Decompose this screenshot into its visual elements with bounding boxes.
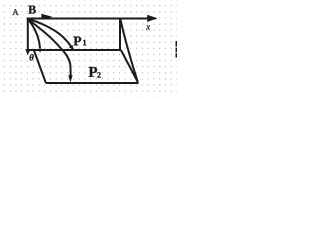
wire incline left edge — [34, 50, 46, 83]
wire bottom edge — [46, 82, 139, 84]
label B — [28, 6, 35, 14]
arrowhead P1 end — [69, 45, 74, 51]
trajectory curve 3 steep — [28, 19, 40, 48]
arrowhead P2 end — [68, 75, 72, 82]
arrowhead vertical drop — [25, 49, 30, 55]
label P1_P — [74, 37, 82, 46]
scan artifact bar right edge — [176, 41, 178, 47]
arrowhead curve3 end — [38, 48, 42, 53]
wire right vertical edge — [119, 19, 121, 51]
trajectory curve P1 — [28, 19, 71, 46]
label x — [146, 25, 150, 29]
node top edge of incline (mid horizontal) — [27, 49, 121, 51]
label P2_P — [89, 67, 97, 77]
wire vertical drop line from B — [27, 19, 29, 50]
wire incline right edge — [121, 50, 138, 82]
trajectory curve P2 — [28, 19, 71, 78]
label P1_1 — [83, 40, 86, 46]
x-axis — [27, 18, 156, 20]
arrowhead v0 on x-axis — [41, 14, 52, 20]
label A — [12, 9, 18, 15]
wire long right slant — [120, 19, 137, 82]
arrowhead x-axis — [147, 15, 157, 22]
label theta — [30, 54, 34, 60]
label P2_2 — [97, 72, 100, 77]
